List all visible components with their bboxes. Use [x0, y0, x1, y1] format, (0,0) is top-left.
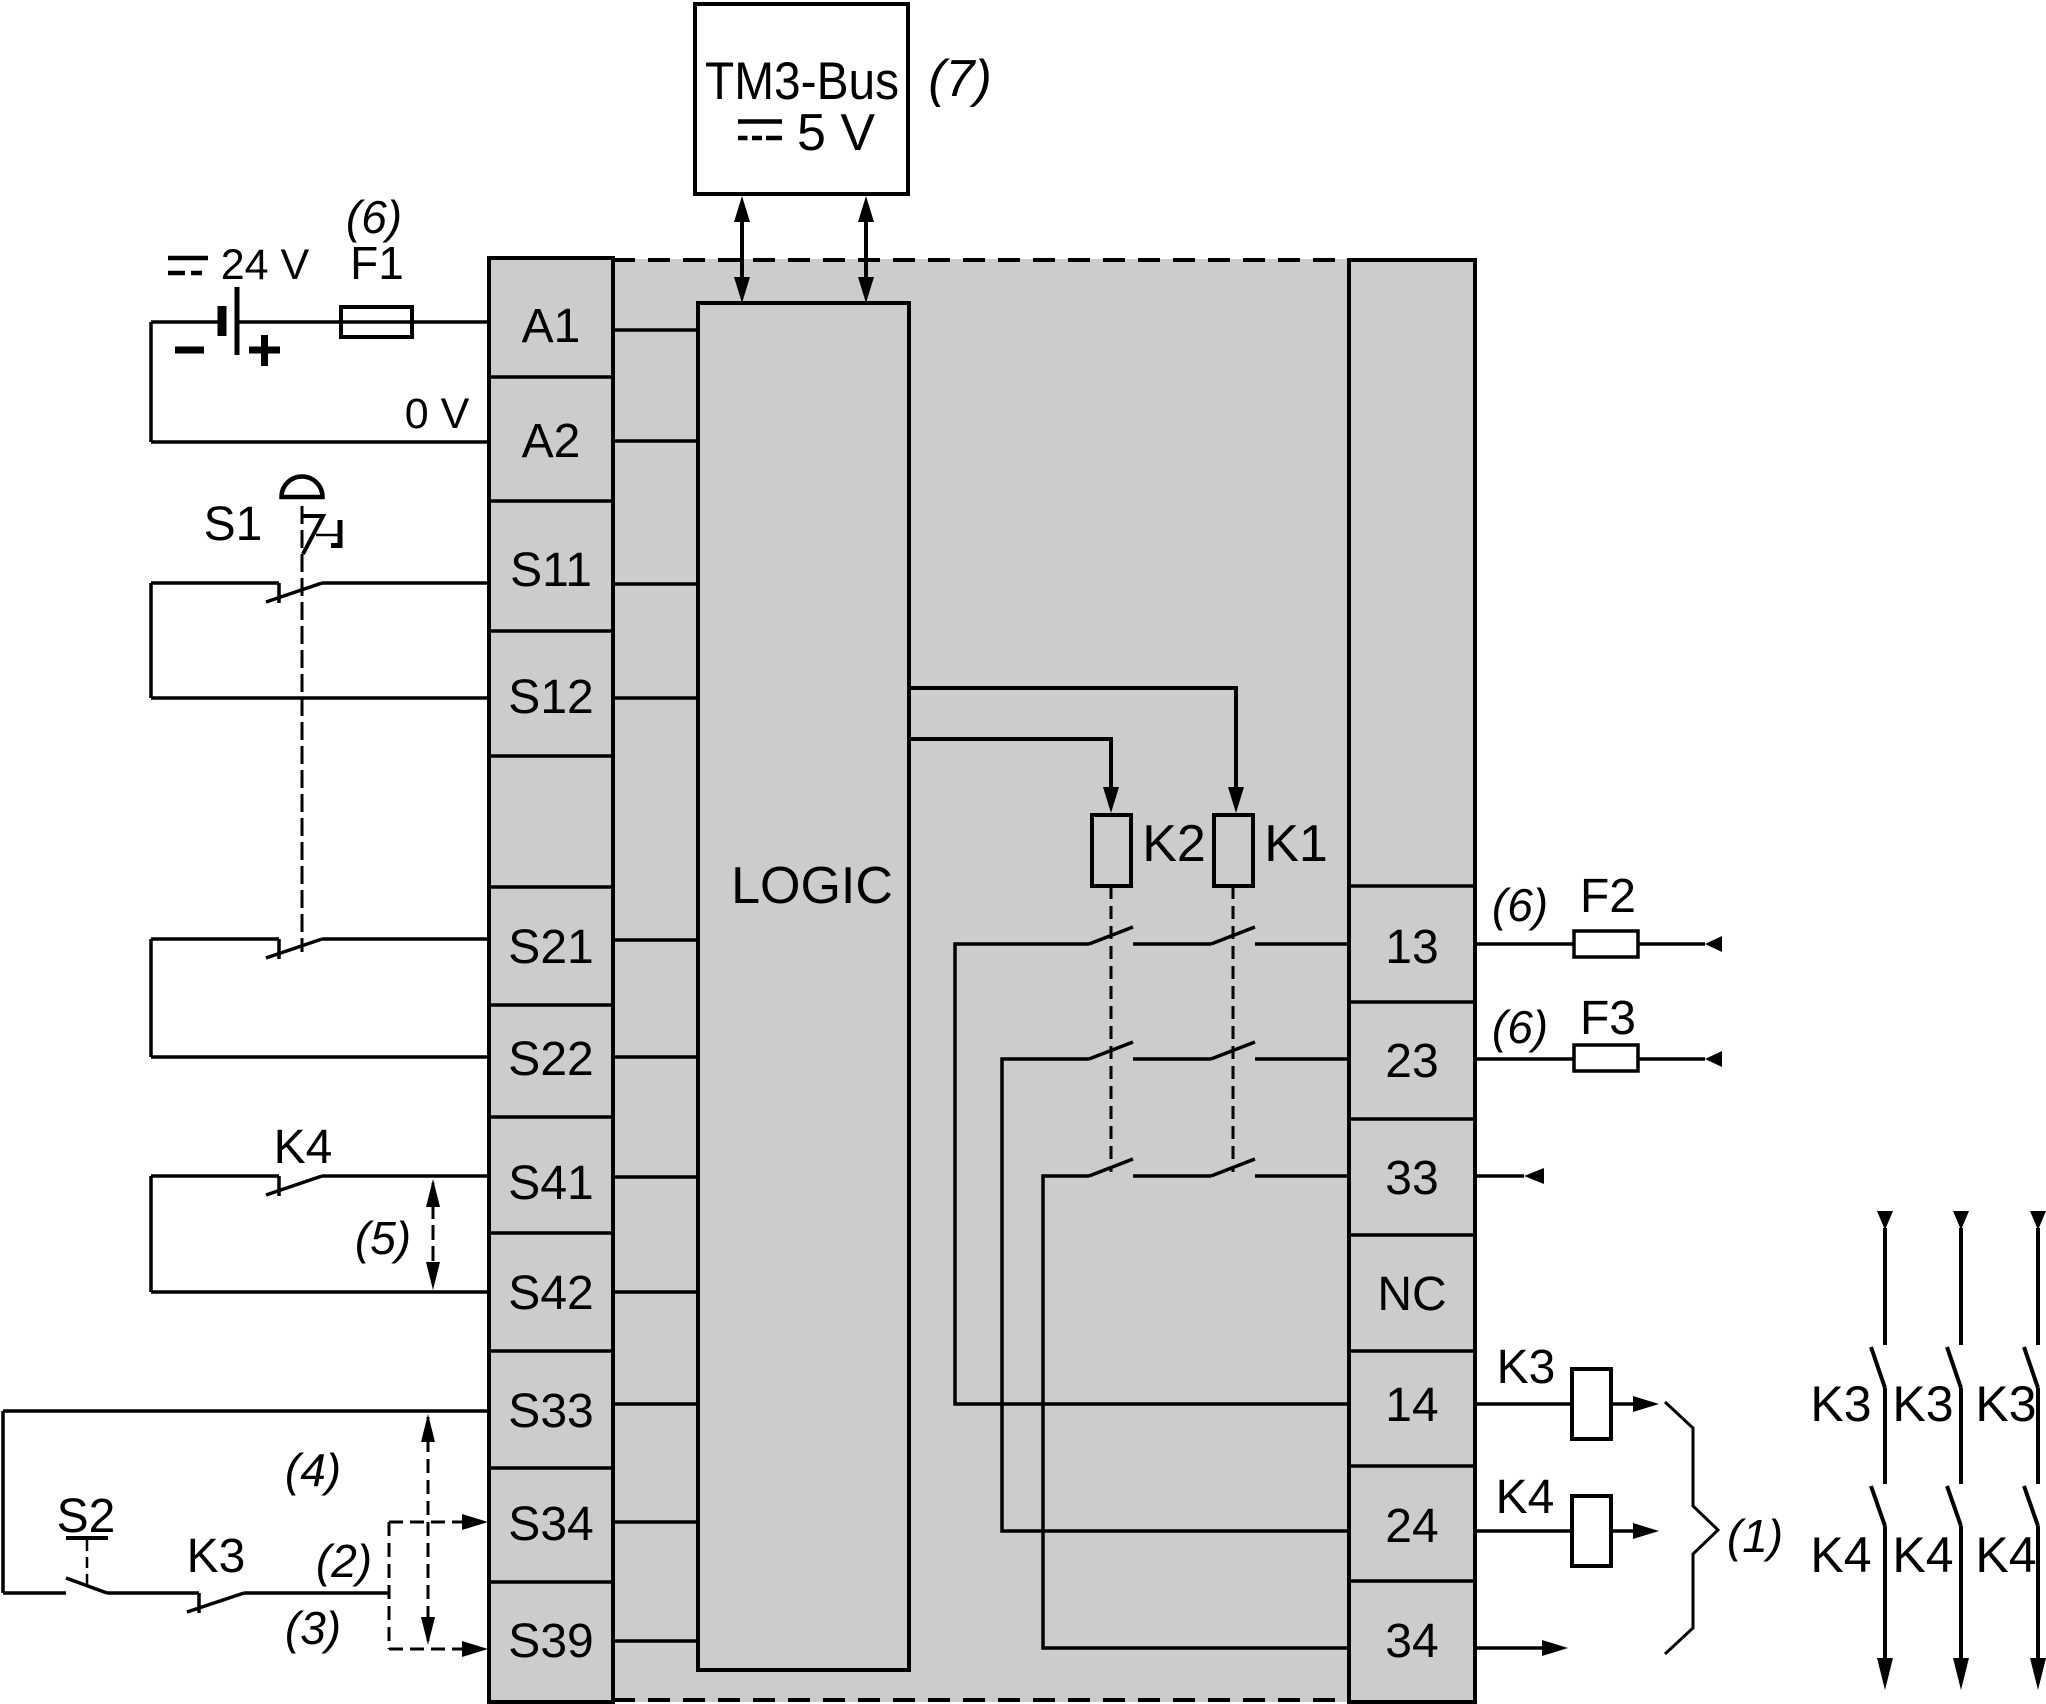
- svg-text:33: 33: [1385, 1152, 1438, 1205]
- svg-text:K1: K1: [1264, 815, 1328, 873]
- svg-text:NC: NC: [1377, 1268, 1446, 1321]
- svg-text:24 V: 24 V: [221, 241, 310, 289]
- svg-text:(5): (5): [355, 1212, 411, 1264]
- svg-text:K3: K3: [1892, 1376, 1953, 1432]
- svg-text:(1): (1): [1727, 1510, 1783, 1562]
- svg-text:23: 23: [1385, 1035, 1438, 1088]
- svg-text:K4: K4: [274, 1121, 333, 1174]
- svg-text:S39: S39: [508, 1615, 593, 1668]
- svg-text:S11: S11: [510, 544, 592, 597]
- svg-text:TM3-Bus: TM3-Bus: [705, 52, 899, 111]
- svg-text:K3: K3: [1497, 1341, 1556, 1394]
- svg-text:S33: S33: [508, 1385, 593, 1438]
- svg-text:K4: K4: [1496, 1471, 1555, 1524]
- svg-text:LOGIC: LOGIC: [731, 857, 893, 915]
- svg-text:0 V: 0 V: [405, 390, 470, 438]
- svg-text:S34: S34: [508, 1498, 593, 1551]
- svg-text:(6): (6): [346, 191, 402, 243]
- svg-text:S2: S2: [57, 1490, 116, 1543]
- svg-text:(7): (7): [928, 50, 992, 108]
- svg-text:(6): (6): [1492, 1001, 1548, 1053]
- svg-text:(3): (3): [285, 1602, 341, 1654]
- svg-text:F1: F1: [350, 237, 404, 289]
- svg-text:F2: F2: [1580, 870, 1636, 923]
- svg-text:K3: K3: [1975, 1376, 2036, 1432]
- svg-text:K3: K3: [187, 1530, 246, 1583]
- svg-text:S12: S12: [508, 671, 593, 724]
- svg-text:A1: A1: [522, 300, 581, 353]
- svg-text:24: 24: [1385, 1500, 1438, 1553]
- svg-text:S1: S1: [204, 498, 263, 551]
- svg-text:S22: S22: [508, 1033, 593, 1086]
- svg-text:K3: K3: [1810, 1376, 1871, 1432]
- svg-text:S41: S41: [508, 1157, 593, 1210]
- svg-text:14: 14: [1385, 1379, 1438, 1432]
- svg-text:13: 13: [1385, 921, 1438, 974]
- svg-text:K4: K4: [1892, 1527, 1953, 1583]
- svg-text:K2: K2: [1142, 815, 1206, 873]
- svg-text:K4: K4: [1810, 1527, 1871, 1583]
- svg-text:S21: S21: [508, 921, 593, 974]
- svg-text:S42: S42: [508, 1267, 593, 1320]
- svg-text:F3: F3: [1580, 992, 1636, 1045]
- svg-text:A2: A2: [522, 415, 581, 468]
- svg-text:K4: K4: [1975, 1527, 2036, 1583]
- svg-text:(2): (2): [316, 1535, 372, 1587]
- svg-text:5 V: 5 V: [797, 104, 875, 162]
- svg-text:(6): (6): [1492, 879, 1548, 931]
- svg-text:34: 34: [1385, 1615, 1438, 1668]
- svg-text:(4): (4): [285, 1444, 341, 1496]
